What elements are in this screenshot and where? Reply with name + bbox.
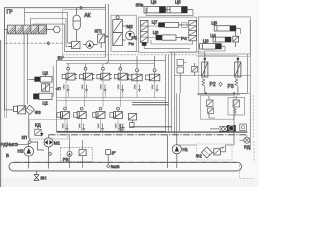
pump Н1 xyxy=(168,135,189,168)
svg-text:№2Б: №2Б xyxy=(111,164,121,169)
svg-text:Ц5: Ц5 xyxy=(211,21,217,26)
box АК section xyxy=(63,9,106,57)
pump Н2 xyxy=(18,138,45,169)
valves row1 БУ xyxy=(62,64,77,81)
frame left edge artifact xyxy=(0,40,2,187)
wire y75.5 xyxy=(174,75,250,77)
box РВ xyxy=(61,148,93,163)
wire top cyl manifold xyxy=(146,8,193,15)
pump H3 small xyxy=(83,41,98,48)
svg-text:ГР: ГР xyxy=(7,10,14,16)
svg-text:КП: КП xyxy=(22,135,27,140)
svg-text:Ц8: Ц8 xyxy=(153,30,159,35)
pipes mid right vertical xyxy=(166,52,248,135)
svg-text:3": 3" xyxy=(112,150,117,155)
pump circle of ГР xyxy=(47,26,61,33)
springs drains row1 xyxy=(63,85,124,92)
valve РВ1 xyxy=(67,135,72,168)
motor М1 xyxy=(44,135,61,169)
svg-text:Н2: Н2 xyxy=(18,149,24,154)
valve ЗН xyxy=(34,171,46,181)
svg-text:Р2: Р2 xyxy=(210,82,216,88)
check valve xyxy=(212,131,234,155)
svg-text:Рм: Рм xyxy=(129,41,135,46)
wire lead into ГР xyxy=(5,29,8,31)
svg-text:Ф2: Ф2 xyxy=(196,154,202,159)
wire Ф3 down xyxy=(5,110,29,138)
cylinder Ц3 xyxy=(200,39,225,50)
svg-text:Ц6: Ц6 xyxy=(151,0,157,5)
svg-text:М1: М1 xyxy=(54,140,61,145)
component П column xyxy=(177,60,187,94)
springs row2 xyxy=(62,124,122,131)
wire right of Ц1 Ц2 xyxy=(50,66,54,96)
box ГР xyxy=(7,9,63,57)
wire drops from ГР xyxy=(24,34,27,43)
wire top connections of Р2 Р3 xyxy=(169,52,238,62)
wire nested ГР ports xyxy=(25,8,72,52)
arrow into Р3 xyxy=(236,58,239,62)
valve КП xyxy=(95,29,109,48)
valve sub1 xyxy=(207,96,216,118)
wire y51.5 xyxy=(64,51,105,53)
svg-text:Б: Б xyxy=(6,153,9,158)
valve Р4 stack xyxy=(189,20,197,40)
svg-text:<П: <П xyxy=(56,86,61,91)
svg-text:Р5: Р5 xyxy=(132,36,138,41)
wires inside Ц7Ц8 box xyxy=(144,25,192,49)
filter Ф3 diamond xyxy=(25,105,41,115)
svg-text:Ц2: Ц2 xyxy=(42,71,48,76)
cylinder Ц6 xyxy=(144,0,171,13)
valve ГР multi-section body xyxy=(8,25,47,34)
svg-text:КД: КД xyxy=(35,122,42,127)
fitting near Ц7 rod xyxy=(182,23,188,28)
main bus lines xyxy=(57,131,248,133)
wire y43 dashed manifold xyxy=(6,42,63,44)
svg-text:3№: 3№ xyxy=(136,2,144,8)
wire y126.8 xyxy=(130,102,172,126)
svg-text:БУ: БУ xyxy=(58,56,65,62)
valve Р1 stack xyxy=(113,16,123,46)
pipe pair vertical xyxy=(105,4,108,64)
valve Р2 xyxy=(202,54,216,93)
valves row2 БУ xyxy=(57,107,70,118)
valve З1 xyxy=(106,150,120,170)
svg-text:ЗН: ЗН xyxy=(40,176,46,181)
svg-text:Ц3: Ц3 xyxy=(203,39,209,44)
svg-text:РД№6Э: РД№6Э xyxy=(1,142,19,148)
heat exchanger xyxy=(210,124,246,131)
box Ц7Ц8 section xyxy=(63,17,197,55)
cylinder Ц2 xyxy=(31,71,52,83)
box КД xyxy=(30,120,68,140)
wires in right box xyxy=(198,28,240,51)
svg-text:РД: РД xyxy=(244,145,251,150)
valve below АК xyxy=(69,41,80,48)
filter Ф2 xyxy=(196,147,213,159)
tank Б xyxy=(9,162,242,171)
frame right xyxy=(249,20,251,150)
svg-text:Ц5: Ц5 xyxy=(175,0,181,4)
valve Р3 xyxy=(228,62,241,93)
valve row2 5th xyxy=(120,124,125,132)
wire y93.5 manifold right xyxy=(198,92,248,94)
wire БУ inner manifolds xyxy=(57,98,166,101)
wire БУ top manifold xyxy=(66,63,155,65)
cylinder Ц5top xyxy=(167,0,193,13)
wires vertical БУ columns xyxy=(65,81,155,132)
box БУ xyxy=(57,56,169,133)
wire left mid xyxy=(21,43,34,110)
valve big2 row1 xyxy=(146,56,160,92)
svg-text:РВ: РВ xyxy=(63,157,69,162)
motor М2 xyxy=(122,24,134,46)
node diamond on top line xyxy=(80,6,83,9)
node diamond between Р2 Р3 xyxy=(219,82,223,86)
valve between Ц1 Ц2 xyxy=(42,84,50,91)
cylinder Ц8 xyxy=(153,30,182,40)
svg-text:Р3: Р3 xyxy=(228,84,234,90)
svg-text:Ф3: Ф3 xyxy=(35,110,41,115)
arrow into Р2 xyxy=(203,58,206,62)
accumulator АК xyxy=(73,8,91,42)
dashed frame bottom right xyxy=(240,95,254,179)
valve small right of Ц4 xyxy=(233,31,239,47)
box around Ф2 group xyxy=(197,144,233,160)
box М2 section xyxy=(111,15,136,51)
valve row2 6th xyxy=(129,114,137,128)
wire Н1 to Ф2 group xyxy=(177,144,197,146)
cylinder Ц7 xyxy=(152,20,184,28)
node diamond on y43 line xyxy=(47,42,50,45)
valve РВ2 xyxy=(79,140,86,168)
valve + filter Ф3 xyxy=(14,106,26,114)
valve big1 row1 xyxy=(128,56,142,92)
svg-text:Р4: Р4 xyxy=(181,36,187,41)
cylinder Ц4 xyxy=(210,33,231,43)
valve with spring right of П column xyxy=(192,63,198,76)
box right inner xyxy=(228,97,244,115)
svg-text:Ц7: Ц7 xyxy=(152,20,158,25)
box right pump group xyxy=(201,95,235,119)
box around Р2 Р3 section xyxy=(199,56,251,93)
box Ц3Ц4Ц5 section xyxy=(198,17,250,54)
valve КД xyxy=(22,122,44,140)
svg-text:КП: КП xyxy=(95,29,101,34)
svg-text:АК: АК xyxy=(84,13,90,19)
svg-text:Н1: Н1 xyxy=(182,147,188,152)
valve Р5 stack xyxy=(140,20,148,45)
svg-text:Ц1: Ц1 xyxy=(42,101,48,106)
valve sub2 relief xyxy=(233,96,240,125)
cylinder Ц5r xyxy=(211,21,240,32)
cylinder Ц1 xyxy=(33,93,52,105)
gauge РД xyxy=(240,135,251,150)
outer frame xyxy=(5,8,106,110)
